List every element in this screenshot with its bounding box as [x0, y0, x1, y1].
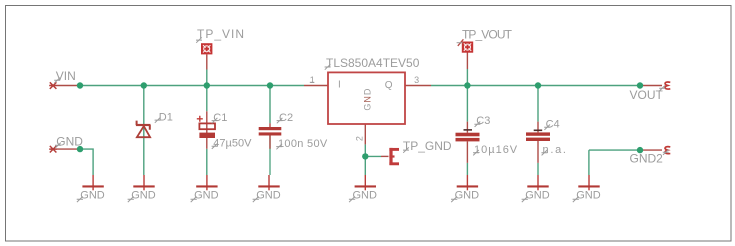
svg-text:47µ50V: 47µ50V [213, 137, 252, 149]
svg-text:TP_VIN: TP_VIN [197, 27, 245, 41]
svg-text:I: I [338, 79, 341, 90]
svg-text:TP_VOUT: TP_VOUT [462, 27, 513, 41]
svg-text:C1: C1 [213, 112, 227, 124]
svg-text:C2: C2 [279, 112, 293, 124]
svg-text:10µ16V: 10µ16V [474, 144, 518, 156]
svg-text:3: 3 [414, 75, 419, 85]
svg-text:C3: C3 [476, 115, 490, 127]
svg-text:C4: C4 [546, 118, 560, 130]
svg-text:Q: Q [385, 80, 393, 91]
svg-text:GND: GND [353, 190, 378, 202]
svg-text:GND: GND [256, 190, 281, 202]
svg-text:GND: GND [525, 190, 550, 202]
svg-text:2: 2 [355, 136, 365, 141]
svg-text:VIN: VIN [56, 69, 76, 83]
svg-text:TLS850A4TEV50: TLS850A4TEV50 [326, 56, 420, 70]
svg-text:GND2: GND2 [630, 151, 664, 165]
svg-text:GND: GND [194, 190, 219, 202]
svg-text:TP_GND: TP_GND [403, 139, 452, 153]
svg-text:VOUT: VOUT [630, 88, 664, 102]
svg-text:100n 50V: 100n 50V [278, 138, 328, 150]
svg-text:GND: GND [131, 190, 156, 202]
svg-text:GND: GND [576, 190, 601, 202]
svg-text:GND: GND [80, 190, 105, 202]
svg-text:n.a.: n.a. [543, 144, 568, 156]
svg-text:GND: GND [363, 88, 373, 111]
svg-text:1: 1 [310, 75, 315, 85]
svg-text:GND: GND [455, 190, 480, 202]
svg-text:GND: GND [56, 135, 83, 149]
svg-text:D1: D1 [159, 112, 173, 124]
